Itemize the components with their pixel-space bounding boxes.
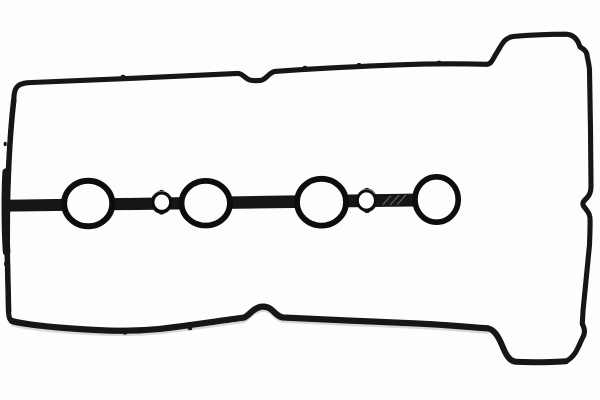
small circle 1 ring: [153, 193, 171, 211]
big circle 3: [297, 179, 346, 226]
small circle 2 ring: [357, 191, 375, 210]
small circle 1 white gap arcs: [153, 192, 170, 197]
band gray streak texture near x390: [383, 195, 406, 205]
left edge thicker overlay: [7, 100, 14, 311]
lower-right step thicker overlay: [488, 328, 566, 362]
left edge mid bulge: [5, 172, 6, 252]
gasket outer outline: [7, 34, 591, 362]
big circle 2: [182, 181, 230, 226]
middle band: [7, 193, 437, 211]
bottom edge thicker overlay: [12, 307, 488, 331]
bottom edge soft shadow: [12, 311, 488, 335]
small circle blob 1: [151, 191, 173, 214]
big circle 1: [64, 181, 112, 227]
big circle 4: [415, 177, 458, 222]
tiny edge nubs: [4, 61, 549, 366]
small circle 2 white gap arcs: [358, 190, 375, 195]
small circle blob 2: [357, 189, 378, 213]
